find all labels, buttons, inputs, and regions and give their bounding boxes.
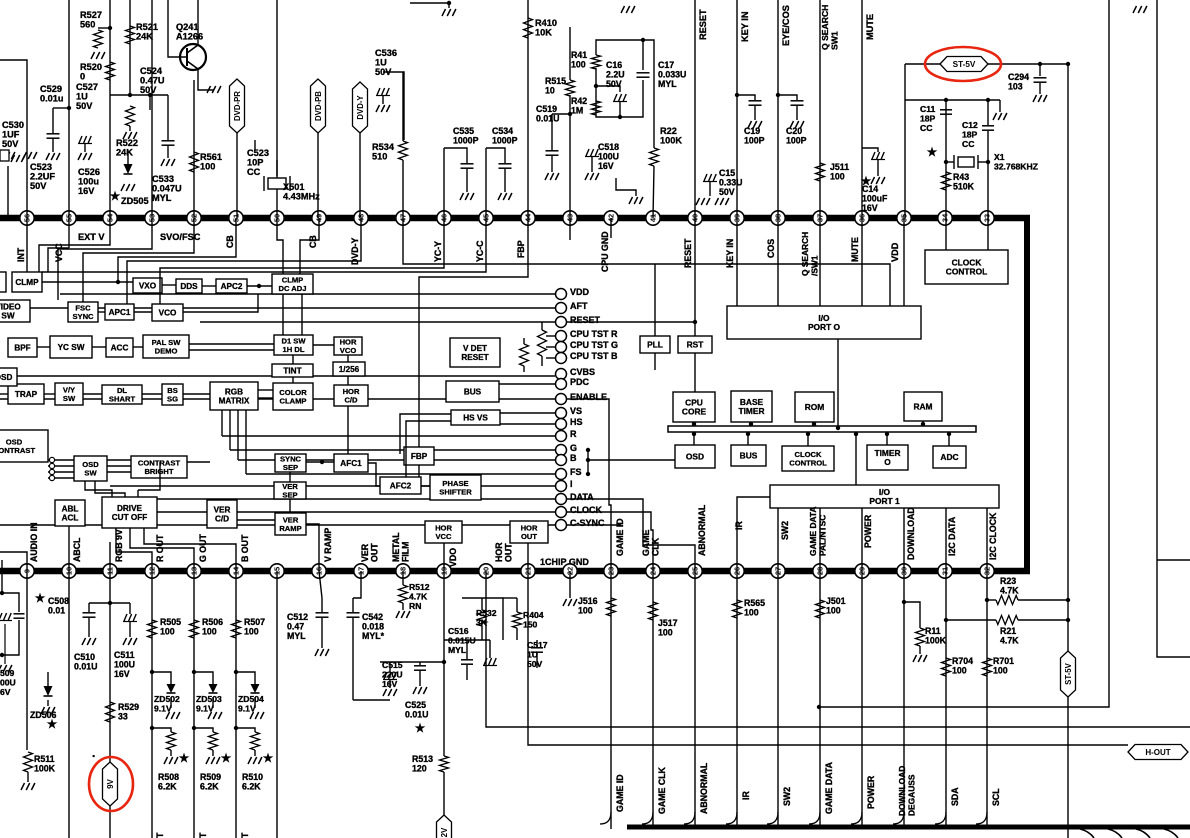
wire DL SHART to BS SG bbox=[142, 393, 162, 395]
svg-text:R701: R701 bbox=[993, 656, 1014, 666]
box ACC bbox=[106, 338, 133, 357]
box FSC SYNC bbox=[68, 302, 98, 322]
svg-text:DOWNLOAD: DOWNLOAD bbox=[897, 766, 907, 816]
wire pin 52 staircase to FSC SYNC bbox=[83, 218, 194, 302]
pin 49 (top bus) bbox=[312, 211, 326, 225]
svg-text:DOWNLOAD: DOWNLOAD bbox=[906, 507, 916, 560]
resistor J501 in line bbox=[816, 600, 825, 618]
wire VCC staircase down-left bbox=[48, 248, 69, 272]
label C530 1UF 50V bbox=[2, 120, 24, 149]
svg-text:VXO: VXO bbox=[139, 281, 157, 290]
svg-text:OSD: OSD bbox=[0, 373, 12, 382]
bottom bar diagonal exits right bbox=[1080, 829, 1178, 838]
resistor R41 bbox=[592, 55, 601, 69]
node B terminal circle bbox=[556, 455, 567, 466]
svg-text:1UF: 1UF bbox=[2, 130, 20, 140]
svg-text:50V: 50V bbox=[30, 181, 47, 191]
svg-text:OUT: OUT bbox=[370, 543, 380, 562]
svg-text:R404: R404 bbox=[523, 610, 544, 620]
svg-text:103: 103 bbox=[1008, 82, 1023, 92]
label C15 0.33U 50V bbox=[719, 168, 742, 197]
svg-text:METAL: METAL bbox=[391, 532, 401, 562]
wire FSC SYNC to APC1 bbox=[98, 311, 105, 313]
label C508 0.01 bbox=[48, 596, 69, 616]
wire BS SG to RGB MATRIX bbox=[183, 393, 210, 395]
wire HS VS to AFC region L2 bbox=[406, 421, 451, 477]
wire R net bbox=[222, 435, 555, 437]
junction R23 left bbox=[985, 598, 989, 602]
label HOR OUT above pin 21 bbox=[494, 542, 514, 562]
pin 30 (bottom bus) bbox=[897, 564, 911, 578]
zener ZD505 bbox=[124, 164, 133, 174]
junction R527 tap bbox=[108, 26, 112, 30]
label C523 2.2UF 50V bbox=[30, 162, 55, 191]
ground below ZD502 bbox=[166, 712, 180, 719]
svg-text:DVD-PB: DVD-PB bbox=[314, 91, 323, 121]
pin 56 (top bus) bbox=[20, 211, 34, 225]
svg-text:C542: C542 bbox=[362, 612, 383, 622]
capacitor C519 bbox=[546, 150, 559, 152]
zener ZD504 bbox=[251, 684, 260, 693]
electrolytic C511 mark bbox=[123, 614, 137, 622]
svg-text:BPF: BPF bbox=[14, 343, 30, 352]
label R512 4.7K RN bbox=[409, 582, 430, 611]
resistor R701 in line pin32 bbox=[983, 658, 992, 676]
label R505 100 bbox=[160, 617, 181, 637]
wire top edge net with ground bbox=[410, 2, 449, 4]
svg-text:0.01U: 0.01U bbox=[536, 114, 559, 124]
svg-text:COS: COS bbox=[766, 239, 776, 258]
svg-text:C526: C526 bbox=[78, 167, 100, 177]
wire pin 47 staircase long right bbox=[403, 218, 890, 306]
ground below R510 bbox=[248, 757, 262, 764]
wire x=778 EYE/COS top to pin 38 bbox=[777, 0, 779, 218]
ground below R508 bbox=[164, 757, 178, 764]
svg-text:PDC: PDC bbox=[570, 377, 590, 387]
IC U201 1-CHIP top bus bbox=[0, 215, 1030, 222]
label R510 6.2K bbox=[242, 772, 263, 792]
svg-text:50V: 50V bbox=[606, 79, 622, 89]
svg-text:ABL: ABL bbox=[62, 505, 79, 514]
svg-text:Q SEARCH: Q SEARCH bbox=[820, 5, 830, 50]
label Q SEARCH SW1 rotated bbox=[820, 5, 840, 50]
junction GAME DATA at y=707 bbox=[817, 705, 821, 709]
label C12 18P CC bbox=[962, 120, 978, 149]
ground ZD506 bbox=[41, 707, 55, 714]
wire C16 branch bbox=[596, 86, 620, 92]
box V DET RESET bbox=[450, 338, 500, 367]
wire pin 18 METAL FILM down to R512 bbox=[402, 571, 404, 585]
svg-text:CLK: CLK bbox=[651, 537, 661, 556]
wire pin 11 down RGB 9V bbox=[109, 571, 111, 762]
svg-text:CC: CC bbox=[962, 139, 974, 149]
ground pin 22 bbox=[563, 599, 577, 606]
svg-text:A1266: A1266 bbox=[176, 32, 203, 42]
box P partial left edge bbox=[0, 272, 6, 292]
wire TINT down to COLOR CLAMP bbox=[292, 377, 294, 383]
svg-text:50V: 50V bbox=[76, 101, 93, 111]
box ADC bbox=[933, 446, 966, 468]
box BASE TIMER bbox=[731, 391, 772, 422]
label C512 0.47 MYL bbox=[287, 612, 308, 641]
svg-text:·: · bbox=[92, 749, 96, 763]
svg-text:9.1V: 9.1V bbox=[196, 704, 214, 714]
svg-text:VDD: VDD bbox=[890, 242, 900, 262]
box OSD SW bbox=[74, 456, 107, 481]
svg-text:R520: R520 bbox=[80, 62, 102, 72]
wire ABNORMAL riser bbox=[567, 499, 695, 571]
svg-text:CC: CC bbox=[920, 123, 932, 133]
svg-text:0.47U: 0.47U bbox=[140, 76, 165, 86]
wire DATA net bbox=[150, 498, 555, 500]
svg-text:100: 100 bbox=[952, 666, 967, 676]
wire CLOCK CONTROL to bus bar bbox=[807, 432, 809, 446]
pin 33 (top bus) bbox=[980, 211, 994, 225]
svg-text:R11: R11 bbox=[925, 626, 941, 636]
label R527 560 bbox=[80, 10, 102, 30]
ground right of C11/C12 bbox=[999, 100, 1001, 112]
box TIMER 0 bbox=[867, 445, 908, 470]
svg-text:★: ★ bbox=[221, 751, 232, 765]
pin 53 (top bus) bbox=[145, 211, 159, 225]
label DOWNLOAD DEGAUSS bottom bbox=[897, 766, 917, 816]
wire pin 31 I2C DATA down bbox=[945, 571, 947, 829]
pin 39 (top bus) bbox=[730, 211, 744, 225]
svg-text:C20: C20 bbox=[786, 126, 802, 136]
wire AUDIO IN pin 9 to left edge bbox=[0, 552, 27, 571]
svg-text:4.7K: 4.7K bbox=[1000, 586, 1019, 596]
label C535 1000P bbox=[453, 126, 479, 146]
box AFC2 bbox=[380, 477, 421, 494]
wire pin 51 staircase to VXO node bbox=[118, 218, 236, 282]
pin 35 (top bus) bbox=[897, 211, 911, 225]
svg-text:2.2U: 2.2U bbox=[606, 70, 625, 80]
svg-text:O: O bbox=[884, 457, 891, 467]
svg-text:R512: R512 bbox=[409, 582, 430, 592]
electrolytic C509 mark bbox=[0, 613, 12, 621]
node VS terminal circle bbox=[556, 408, 567, 419]
wire pin 25 ABNORMAL down bbox=[694, 571, 696, 829]
node CVBS terminal circle bbox=[556, 369, 567, 380]
pin 16 (bottom bus) bbox=[312, 564, 326, 578]
node input circle OSD SW bbox=[49, 469, 54, 474]
pin 15 (bottom bus) bbox=[270, 564, 284, 578]
svg-text:CB: CB bbox=[308, 235, 318, 248]
wire FBP down to AFC2 region bbox=[418, 465, 420, 477]
label C542 0.018 MYL* bbox=[362, 612, 385, 641]
box I/O PORT 0 bbox=[727, 306, 921, 339]
label C14 100uF 16V bbox=[862, 184, 888, 213]
svg-text:ROM: ROM bbox=[805, 402, 825, 412]
label R521 24K bbox=[136, 22, 158, 42]
capacitor C11 bbox=[940, 109, 952, 111]
box VIDEO SW partial bbox=[0, 300, 30, 322]
wire ENABLE net bbox=[0, 398, 555, 400]
junction at x=1068 ST-5V rail bbox=[1066, 62, 1070, 66]
wire crystal X1 connections bbox=[946, 161, 954, 163]
label Q241 A1266 bbox=[176, 22, 203, 42]
svg-text:Q241: Q241 bbox=[176, 22, 198, 32]
label C516 0.015U MYL bbox=[448, 626, 476, 655]
electrolytic C14 mark bbox=[871, 152, 885, 160]
box RGB MATRIX bbox=[210, 382, 258, 410]
svg-text:SEP: SEP bbox=[282, 490, 297, 499]
label R532 3K bbox=[476, 608, 497, 628]
svg-text:EXT V: EXT V bbox=[78, 232, 105, 242]
svg-text:100P: 100P bbox=[786, 136, 807, 146]
wire pin 39 to I/O PORT 0 bbox=[736, 218, 738, 306]
wire pin 53 staircase to VIDEO SW bbox=[58, 218, 152, 300]
wire SYNC SEP down to VER SEP bbox=[289, 472, 291, 482]
svg-text:CLMP: CLMP bbox=[15, 278, 39, 287]
wire pin 55 VCC stub bbox=[68, 218, 70, 248]
svg-text:100: 100 bbox=[830, 172, 845, 182]
wire R404 net bbox=[503, 597, 517, 599]
svg-text:33: 33 bbox=[118, 712, 128, 722]
svg-text:SYNC: SYNC bbox=[72, 312, 94, 321]
svg-text:100: 100 bbox=[993, 666, 1008, 676]
svg-text:J517: J517 bbox=[658, 618, 678, 628]
wire VDD net bbox=[60, 293, 555, 295]
wire pin 15 down bbox=[276, 571, 278, 838]
label METAL FILM above pin 18 bbox=[391, 532, 411, 562]
label R509 6.2K bbox=[200, 772, 221, 792]
junction R23 right on rail bbox=[1066, 598, 1070, 602]
pin 18 (bottom bus) bbox=[396, 564, 410, 578]
junction C529/C527 tap bbox=[67, 106, 71, 110]
hexagon DVD-Y bbox=[353, 82, 368, 133]
ground below R527 bbox=[91, 52, 105, 59]
svg-text:100: 100 bbox=[744, 608, 759, 618]
wire C11 leg bbox=[945, 100, 947, 218]
wire YC SW to ACC bbox=[92, 346, 106, 348]
svg-text:100: 100 bbox=[578, 606, 593, 616]
resistor R510 bbox=[251, 732, 260, 750]
wire pin 37 to I/O PORT 0 bbox=[819, 218, 821, 306]
wire GAME ID riser bbox=[609, 404, 611, 571]
svg-text:VCC: VCC bbox=[435, 532, 452, 541]
label R21 4.7K bbox=[1000, 626, 1019, 646]
wire x=570 cluster to pin 43 bbox=[569, 95, 571, 218]
box HS VS bbox=[451, 410, 500, 425]
junction C519 bbox=[568, 112, 572, 116]
wire pin 33 to clock control bbox=[987, 218, 989, 250]
svg-text:G: G bbox=[570, 443, 577, 453]
svg-text:0.47: 0.47 bbox=[287, 622, 304, 632]
svg-text:DVD-Y: DVD-Y bbox=[356, 95, 365, 120]
svg-text:C508: C508 bbox=[48, 596, 69, 606]
svg-text:C510: C510 bbox=[74, 652, 95, 662]
wire DRIVE CUT OFF drop R OUT bbox=[116, 528, 152, 571]
resistor R527 bbox=[98, 27, 110, 29]
label C17 0.033U MYL bbox=[658, 60, 686, 89]
svg-text:FILM: FILM bbox=[401, 541, 411, 562]
ground below ZD505 bbox=[121, 184, 135, 191]
wire HS VS to AFC region L1 bbox=[400, 414, 451, 454]
svg-text:J511: J511 bbox=[830, 162, 849, 172]
capacitor C510 bbox=[88, 603, 90, 612]
pin 36 (top bus) bbox=[855, 211, 869, 225]
svg-text:R704: R704 bbox=[952, 656, 973, 666]
svg-text:2.2UF: 2.2UF bbox=[30, 172, 55, 182]
svg-text:R534: R534 bbox=[372, 142, 395, 152]
wire left edge L to pin 56 bbox=[0, 60, 27, 218]
wire zd505 lead bbox=[127, 150, 129, 164]
wire HOR OUT box down to pin 21 bbox=[527, 543, 529, 571]
wire vertical rail x=1109 bbox=[819, 0, 1109, 707]
wire pin 56 INT to CLMP bbox=[26, 218, 28, 272]
capacitor C533 bbox=[167, 95, 169, 140]
node ENABLE terminal circle bbox=[556, 394, 567, 405]
svg-text:CVBS: CVBS bbox=[570, 367, 595, 377]
svg-text:R510: R510 bbox=[242, 772, 263, 782]
svg-text:CB: CB bbox=[225, 235, 235, 248]
svg-text:ST-5V: ST-5V bbox=[1064, 662, 1073, 684]
wire TIMER to bus bar bbox=[886, 432, 888, 445]
svg-text:C533: C533 bbox=[152, 174, 174, 184]
svg-text:FS: FS bbox=[570, 467, 582, 477]
wire BPF to YC SW arrow bbox=[37, 346, 50, 348]
wire G net bbox=[230, 449, 555, 451]
label R506 100 bbox=[202, 617, 223, 637]
label X501 4.43MHz bbox=[283, 182, 320, 202]
svg-text:50V: 50V bbox=[140, 85, 157, 95]
wire crystal leads bbox=[276, 160, 278, 176]
label C529 0.01u bbox=[40, 84, 64, 104]
label C524 0.47U 50V bbox=[140, 66, 165, 95]
svg-text:HS: HS bbox=[570, 417, 583, 427]
junction R11 branch bbox=[902, 600, 906, 604]
svg-text:PORT 1: PORT 1 bbox=[869, 496, 900, 506]
svg-text:H-OUT: H-OUT bbox=[1145, 748, 1170, 757]
ground below R522 bbox=[123, 132, 137, 139]
wire FS net bbox=[246, 473, 555, 475]
svg-text:16V: 16V bbox=[598, 161, 614, 171]
pin 45 (top bus) bbox=[479, 211, 493, 225]
wire pin 17 VER OUT down bbox=[353, 571, 361, 598]
svg-text:0.047U: 0.047U bbox=[152, 184, 182, 194]
svg-text:T: T bbox=[198, 832, 208, 838]
box RST bbox=[678, 336, 712, 353]
box RAM bbox=[904, 392, 942, 421]
wire branch to zener ZD503 bbox=[194, 672, 213, 684]
capacitor C529 bbox=[47, 133, 60, 135]
svg-text:GAME: GAME bbox=[641, 529, 651, 556]
box PLL bbox=[640, 336, 670, 353]
wire pin down x=194 bbox=[193, 571, 195, 838]
wire bus bar to I/O PORT 1 bbox=[855, 432, 857, 485]
svg-text:9.1V: 9.1V bbox=[154, 704, 172, 714]
electrolytic C16 mark bbox=[613, 94, 627, 102]
svg-text:C12: C12 bbox=[962, 120, 978, 130]
highlight ellipse 9V (red) bbox=[89, 757, 133, 811]
wire R23 net bbox=[987, 599, 996, 601]
resistor R532 bbox=[478, 610, 487, 626]
svg-text:T: T bbox=[155, 832, 165, 838]
svg-text:B OUT: B OUT bbox=[240, 534, 250, 562]
box DDS bbox=[176, 279, 202, 293]
wire branch to zener ZD502 bbox=[152, 672, 171, 684]
svg-text:31: 31 bbox=[941, 567, 950, 575]
pin 48 (top bus) bbox=[354, 211, 368, 225]
svg-text:INT: INT bbox=[16, 247, 26, 262]
wire C-SYNC run bbox=[567, 524, 621, 526]
ground below C294 bbox=[1033, 95, 1047, 102]
svg-text:4.7K: 4.7K bbox=[409, 592, 428, 602]
bottom bar wire entry curves bbox=[600, 812, 987, 824]
wire x=110 top to pin 54 bbox=[109, 0, 111, 218]
electrolytic C516 mark2 bbox=[483, 658, 497, 666]
svg-text:DVD-PR: DVD-PR bbox=[233, 91, 242, 121]
svg-text:24K: 24K bbox=[116, 148, 133, 158]
svg-text:R561: R561 bbox=[200, 152, 222, 162]
ground C15 a bbox=[696, 198, 710, 205]
svg-text:ZD503: ZD503 bbox=[196, 694, 222, 704]
svg-text:VCO: VCO bbox=[340, 346, 357, 355]
electrolytic C515 mark bbox=[383, 672, 397, 680]
svg-text:MUTE: MUTE bbox=[865, 14, 875, 40]
wire pin 36 to I/O PORT 0 bbox=[861, 218, 863, 306]
label C525 0.01U bbox=[405, 700, 428, 720]
ground C15 b bbox=[715, 198, 729, 205]
resistor R22 (in line x=654) bbox=[650, 148, 659, 166]
label C533 0.047U MYL bbox=[152, 174, 182, 203]
wire pin 28 GAME DATA down bbox=[819, 571, 821, 829]
label R520 0 bbox=[80, 62, 102, 82]
svg-text:2V: 2V bbox=[440, 827, 449, 837]
svg-text:0.018: 0.018 bbox=[362, 622, 384, 632]
svg-text:CONTROL: CONTROL bbox=[789, 458, 827, 467]
svg-text:ADC: ADC bbox=[940, 452, 958, 462]
ground below C20 bbox=[790, 121, 804, 128]
node PDC terminal circle bbox=[556, 379, 567, 390]
capacitor C527 electrolytic mark bbox=[78, 136, 92, 144]
node input circle OSD SW bbox=[49, 463, 54, 468]
svg-text:C523: C523 bbox=[247, 148, 269, 158]
svg-text:R529: R529 bbox=[118, 702, 139, 712]
wire pin 54 EXT V staircase to CLMP bbox=[39, 218, 110, 272]
capacitor C522 top-left small net bbox=[254, 140, 256, 150]
svg-text:C524: C524 bbox=[140, 66, 163, 76]
label R42 1M bbox=[571, 96, 587, 116]
electrolytic C518 mark bbox=[585, 149, 599, 157]
svg-text:DATA: DATA bbox=[570, 492, 594, 502]
ground stub top right bbox=[1133, 6, 1147, 13]
wire branch to resistor R508 bbox=[152, 728, 171, 732]
ground below C536 bbox=[376, 105, 390, 112]
wire C-SYNC net bbox=[0, 524, 555, 526]
label J511 100 bbox=[830, 162, 849, 182]
wire pin 22 stub + ground bbox=[569, 571, 571, 598]
wire C536 bracket bbox=[383, 72, 404, 140]
svg-text:R508: R508 bbox=[158, 772, 179, 782]
svg-text:16V: 16V bbox=[114, 669, 130, 679]
wire B net bbox=[238, 459, 555, 461]
svg-text:SW2: SW2 bbox=[782, 787, 792, 806]
node input circle OSD SW bbox=[49, 475, 54, 480]
svg-text:ZD504: ZD504 bbox=[238, 694, 264, 704]
wire pin 26 IR up to I/O PORT 1 bbox=[737, 497, 770, 571]
resistor R704 in line pin31 bbox=[942, 658, 951, 676]
resistor CPU TST divider bbox=[538, 330, 547, 356]
node I terminal circle bbox=[556, 481, 567, 492]
wire R21 net bbox=[946, 619, 996, 621]
ground below C518 bbox=[585, 173, 599, 180]
wire AFT net bbox=[0, 307, 555, 309]
hexagon ST-5V bbox=[940, 57, 988, 72]
svg-text:C527: C527 bbox=[76, 82, 98, 92]
pin 19 (bottom bus) bbox=[437, 564, 451, 578]
